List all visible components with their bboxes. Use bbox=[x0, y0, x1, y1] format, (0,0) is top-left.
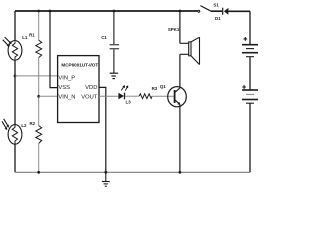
svg-text:R1: R1 bbox=[29, 33, 35, 38]
svg-text:MCP6001UT-I/OT: MCP6001UT-I/OT bbox=[61, 62, 98, 67]
svg-text:C1: C1 bbox=[101, 35, 107, 40]
photoresistor L2 bbox=[2, 119, 27, 144]
node emitter-bottom junction bbox=[179, 171, 182, 174]
wire VOUT-R3 bbox=[125, 95, 139, 97]
resistor R1 bbox=[29, 11, 42, 96]
wire right rail bbox=[249, 11, 251, 172]
resistor R3 bbox=[139, 86, 158, 98]
wire VIN_N bbox=[39, 95, 58, 97]
node bottom rail junction R2 bbox=[37, 171, 40, 174]
transistor Q1 bbox=[160, 84, 186, 107]
svg-text:VIN_N: VIN_N bbox=[58, 94, 75, 100]
svg-text:VIN_P: VIN_P bbox=[58, 76, 75, 82]
svg-text:Q1: Q1 bbox=[160, 84, 166, 89]
wire R3-base bbox=[152, 95, 174, 97]
switch S1 bbox=[198, 3, 220, 13]
svg-text:VSS: VSS bbox=[58, 85, 70, 91]
ground (C1) bbox=[110, 73, 118, 78]
capacitor C1 bbox=[101, 11, 119, 73]
speaker SPK1 bbox=[168, 11, 200, 65]
wire VOUT bbox=[99, 95, 118, 97]
svg-text:R3: R3 bbox=[152, 86, 158, 91]
resistor R2 bbox=[29, 96, 41, 172]
svg-text:VOUT: VOUT bbox=[81, 94, 98, 100]
wire VIN_P bbox=[15, 75, 58, 77]
svg-text:L3: L3 bbox=[126, 100, 132, 105]
wire VSS bbox=[50, 11, 58, 88]
photoresistor L1 bbox=[3, 35, 28, 60]
wire bottom rail bbox=[15, 171, 250, 173]
node VIN_P tap bbox=[14, 75, 17, 78]
battery B2 bbox=[242, 85, 258, 103]
wire VDD bbox=[99, 87, 106, 172]
wire left rail bbox=[14, 11, 16, 172]
wire emitter bbox=[179, 104, 181, 172]
node top rail junctions bbox=[37, 10, 40, 13]
wire top rail bbox=[15, 10, 250, 12]
svg-text:D1: D1 bbox=[215, 16, 221, 21]
svg-text:S1: S1 bbox=[213, 3, 219, 8]
svg-text:L2: L2 bbox=[21, 123, 27, 128]
diode D1 bbox=[215, 8, 228, 21]
node VIN_N tap bbox=[37, 95, 40, 98]
svg-text:R2: R2 bbox=[29, 121, 35, 126]
svg-text:L1: L1 bbox=[22, 35, 28, 40]
svg-text:VDD: VDD bbox=[85, 85, 97, 91]
wire collector bbox=[179, 54, 181, 88]
node VDD-bottom junction bbox=[104, 171, 107, 174]
svg-text:SPK1: SPK1 bbox=[168, 27, 180, 32]
battery B1 bbox=[242, 37, 258, 57]
ground (bottom) bbox=[102, 172, 110, 186]
op-amp U1 MCP6001 bbox=[58, 56, 99, 123]
LED L3 bbox=[118, 85, 131, 105]
